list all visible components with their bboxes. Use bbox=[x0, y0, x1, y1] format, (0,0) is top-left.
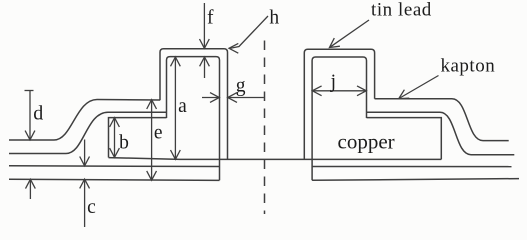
label c bbox=[87, 197, 96, 218]
kapton coverlay top line left bbox=[9, 100, 160, 141]
label kapton bbox=[441, 56, 496, 77]
svg-text:a: a bbox=[178, 96, 187, 117]
svg-text:c: c bbox=[87, 197, 96, 218]
label d bbox=[33, 102, 43, 124]
svg-text:e: e bbox=[154, 123, 163, 144]
dimension c arrow upper bbox=[80, 140, 90, 166]
label h bbox=[269, 8, 279, 29]
svg-text:g: g bbox=[236, 75, 246, 96]
copper conductor top and right edge right bbox=[367, 118, 442, 160]
label j bbox=[330, 71, 336, 92]
svg-text:copper: copper bbox=[338, 130, 395, 154]
base kapton top line right bbox=[312, 166, 511, 168]
kapton coverlay top line right bbox=[375, 99, 509, 141]
dimension e double arrow bbox=[147, 100, 157, 181]
dimension c arrow lower bbox=[80, 179, 90, 227]
solder fillet outer outline left bbox=[160, 49, 228, 160]
svg-text:kapton: kapton bbox=[441, 56, 496, 77]
leader line tin lead bbox=[330, 20, 370, 48]
dimension d arrow lower bbox=[26, 179, 36, 199]
leader line h bbox=[229, 16, 268, 53]
svg-text:tin lead: tin lead bbox=[371, 0, 432, 21]
svg-text:h: h bbox=[269, 8, 279, 29]
plated hole barrel inner outline left bbox=[167, 57, 220, 181]
dimension a double arrow bbox=[171, 57, 181, 159]
coverlay adhesive bottom line right bbox=[367, 112, 515, 154]
dimension b double arrow bbox=[110, 118, 120, 158]
label f bbox=[207, 8, 214, 29]
copper bottom land surface line bbox=[109, 158, 442, 160]
label tin lead bbox=[371, 0, 432, 21]
label b bbox=[119, 133, 129, 154]
copper conductor top and left edge left bbox=[109, 118, 167, 158]
plated hole barrel inner outline right bbox=[312, 57, 366, 180]
label a bbox=[178, 96, 187, 117]
svg-text:j: j bbox=[330, 71, 336, 92]
label copper bbox=[338, 130, 395, 154]
svg-text:b: b bbox=[119, 133, 129, 154]
leader line kapton bbox=[399, 76, 439, 99]
dimension f arrow lower tail bbox=[200, 57, 210, 78]
dimension f arrow upper bbox=[200, 3, 210, 48]
label g bbox=[236, 75, 246, 96]
centerline bbox=[264, 41, 266, 215]
base kapton bottom line left bbox=[9, 179, 220, 180]
label e bbox=[154, 123, 163, 144]
base kapton bottom line right bbox=[312, 179, 519, 181]
dimension g arrows bbox=[202, 93, 264, 103]
svg-text:f: f bbox=[207, 8, 214, 29]
dimension d arrow upper bbox=[25, 91, 35, 140]
svg-text:d: d bbox=[33, 102, 43, 124]
solder fillet outer outline right bbox=[304, 49, 374, 159]
base kapton top line left bbox=[9, 165, 220, 168]
dimension j double arrow bbox=[312, 86, 366, 96]
coverlay adhesive bottom line left bbox=[9, 112, 167, 153]
